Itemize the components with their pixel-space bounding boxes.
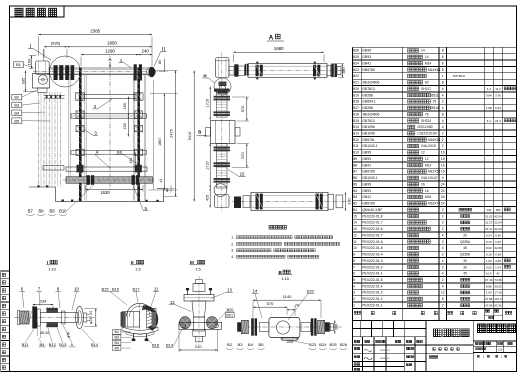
svg-text:B11: B11 [353,144,359,148]
svg-text:6: 6 [353,272,355,276]
svg-text:B4: B4 [40,342,46,347]
svg-text:GB41: GB41 [362,163,371,167]
svg-text:4: 4 [442,125,444,129]
svg-text:GB1096: GB1096 [362,125,375,129]
svg-text:2: 2 [442,227,444,231]
svg-text:1:10: 1:10 [48,266,56,271]
svg-text:234: 234 [40,299,47,304]
svg-text:210: 210 [195,344,202,349]
svg-text:16: 16 [441,163,445,167]
svg-text:53514: 53514 [430,106,439,110]
svg-text:42.04: 42.04 [494,214,502,218]
svg-text:44: 44 [159,179,163,183]
svg-text:2: 2 [442,303,444,307]
svg-text:B16: B16 [353,112,359,116]
svg-text:2: 2 [442,278,444,282]
svg-text:0.24: 0.24 [486,233,492,237]
svg-text:PEX222-01-2: PEX222-01-2 [362,265,382,269]
svg-text:B21: B21 [353,81,359,85]
svg-text:42: 42 [496,272,500,276]
right dark C bracket [142,305,158,330]
svg-text:B24: B24 [353,61,359,65]
svg-text:8: 8 [442,49,444,53]
svg-text:B4: B4 [353,189,357,193]
dim (535) [44,46,67,48]
svg-text:B22: B22 [307,289,315,294]
svg-text:B26: B26 [340,342,348,347]
dim 240 [139,54,153,56]
dim 254 [281,338,299,340]
top busbar tube [49,67,149,69]
svg-text:3.: 3. [231,249,234,253]
left suspension bracket [35,61,49,75]
svg-text:12: 12 [170,300,175,305]
gear clamp [47,308,59,313]
svg-text:GB93: GB93 [362,157,371,161]
svg-text:5: 5 [145,206,148,211]
svg-text:B3: B3 [353,195,357,199]
svg-text:0.38: 0.38 [495,253,501,257]
svg-text:30: 30 [463,259,467,263]
bolts [187,288,189,295]
svg-text:254: 254 [286,339,293,344]
boxed labels B2-B5 [113,330,121,335]
svg-text:PEX222-01-7: PEX222-01-7 [362,233,382,237]
svg-text:3.36: 3.36 [495,93,501,97]
svg-text:GB95: GB95 [362,182,371,186]
svg-text:1630: 1630 [100,190,110,195]
svg-text:21.02: 21.02 [485,214,493,218]
detail I title [14,260,99,347]
clamp at II [149,67,155,77]
svg-text:M14X65: M14X65 [428,68,440,72]
svg-text:B4: B4 [114,341,118,345]
svg-text:160: 160 [334,324,338,330]
dim 1850 [67,46,152,48]
svg-text:280: 280 [496,208,501,212]
svg-text:130: 130 [129,158,133,164]
svg-text:1.68: 1.68 [486,106,492,110]
svg-text:B: B [198,130,201,135]
svg-text:8: 8 [353,259,355,263]
lower tie bar [66,167,147,171]
dim 390 [341,64,343,78]
svg-text:4: 4 [353,284,355,288]
svg-text:GB894.1: GB894.1 [362,100,375,104]
svg-text:B2: B2 [227,342,233,347]
center box [269,318,300,338]
svg-text:GB95: GB95 [362,151,371,155]
svg-text:27.88: 27.88 [485,297,493,301]
svg-text:GB93: GB93 [362,55,371,59]
svg-text:B5: B5 [259,342,265,347]
svg-text:B9: B9 [49,209,55,214]
svg-text:24A-2X15: 24A-2X15 [421,144,436,148]
svg-text:24: 24 [441,189,445,193]
svg-text:2.: 2. [231,242,234,246]
svg-text:GB5780: GB5780 [362,170,375,174]
svg-text:2: 2 [442,100,444,104]
svg-text:5410: 5410 [188,132,192,140]
dim 1140 [253,299,321,301]
svg-text:B13: B13 [59,342,67,347]
detail II title [101,260,159,351]
bottom cylinder [251,192,328,210]
svg-text:B6: B6 [353,176,357,180]
svg-text:PEX222-01-6: PEX222-01-6 [362,240,382,244]
svg-text:PEX222-01-1: PEX222-01-1 [362,272,382,276]
svg-text:3: 3 [353,291,355,295]
bottom busbar tube item5 [66,177,153,183]
svg-text:QMU40-3,BF: QMU40-3,BF [362,208,382,212]
chain top yoke (tension clamp) [216,58,230,78]
svg-text:45.44: 45.44 [40,331,49,335]
chain bottom yoke [214,184,227,197]
svg-text:M16X70: M16X70 [428,202,440,206]
svg-text:9: 9 [353,253,355,257]
base plate [179,322,222,329]
svg-text:1680: 1680 [274,46,284,51]
svg-text:240: 240 [142,48,150,53]
svg-text:4: 4 [442,176,444,180]
svg-text:PEX222-01.6: PEX222-01.6 [362,227,382,231]
center axis [109,56,111,191]
svg-text:22.54: 22.54 [494,221,502,225]
svg-text:14: 14 [353,221,357,225]
svg-text:8: 8 [442,81,444,85]
svg-text:I: I [47,260,48,265]
svg-text:2: 2 [442,214,444,218]
svg-text:II: II [162,47,165,53]
lower insulator stack [217,144,228,189]
svg-text:PEX222-01.1: PEX222-01.1 [362,303,382,307]
detail circle III around ring [214,78,231,95]
detail III title [166,260,265,352]
A view [188,34,352,212]
mid tube bar [71,114,147,118]
svg-text:B2: B2 [114,330,118,334]
bundle yoke plate [44,94,65,96]
svg-text:B15: B15 [353,119,359,123]
svg-text:4.3: 4.3 [487,87,491,91]
svg-text:1290: 1290 [105,48,115,53]
svg-text:8.88: 8.88 [486,284,492,288]
dim 80 right [163,59,165,72]
svg-text:M12: M12 [425,163,432,167]
svg-text:φ76: φ76 [67,332,71,338]
svg-text:GB93: GB93 [362,189,371,193]
dim 210 [179,349,218,351]
crossbar 2 [83,94,136,98]
svg-text:7: 7 [353,265,355,269]
svg-text:B2: B2 [353,202,357,206]
svg-text:B16: B16 [112,287,120,292]
svg-text:5: 5 [353,278,355,282]
svg-text:1.04: 1.04 [495,265,501,269]
svg-text:570: 570 [267,301,274,306]
svg-text:1:5: 1:5 [195,266,200,271]
svg-text:1:5: 1:5 [135,266,140,271]
svg-text:GB7813: GB7813 [362,87,375,91]
BOM rows text [353,49,517,308]
detail circle II [147,67,156,76]
right rail post [137,68,140,202]
svg-text:B18: B18 [353,100,359,104]
svg-text:24.4: 24.4 [495,119,501,123]
svg-text:24A-1X147: 24A-1X147 [421,176,438,180]
svg-text:B5: B5 [14,118,19,123]
svg-text:15: 15 [240,172,245,177]
svg-text:230: 230 [348,198,352,204]
boxed label B1 [14,62,24,68]
svg-text:8: 8 [442,68,444,72]
svg-text:4: 4 [442,272,444,276]
svg-text:B15: B15 [101,287,109,292]
svg-text:PEX222-01.3: PEX222-01.3 [362,291,382,295]
svg-text:B11: B11 [22,342,30,347]
svg-text:III: III [203,74,206,78]
svg-text:0.19: 0.19 [486,253,492,257]
dim phi237.34 [95,309,97,327]
svg-text:B8: B8 [38,209,44,214]
svg-text:4: 4 [442,93,444,97]
svg-text:12: 12 [425,157,429,161]
svg-text:11.27: 11.27 [485,221,492,225]
svg-text:8: 8 [442,61,444,65]
svg-text:B7: B7 [28,209,34,214]
dim 1290 [81,54,139,56]
svg-text:B19: B19 [353,93,359,97]
svg-text:12: 12 [421,151,425,155]
svg-text:B17: B17 [132,287,140,292]
bolts below [133,334,135,341]
svg-text:14: 14 [421,49,425,53]
svg-text:B14: B14 [91,342,99,347]
hanger lines [38,92,40,186]
top cylinder [248,64,327,78]
left shaft [260,322,269,331]
svg-text:GB5780: GB5780 [362,68,375,72]
svg-text:B4: B4 [248,342,254,347]
svg-text:B12: B12 [49,342,57,347]
svg-text:II: II [131,260,134,265]
svg-text:2: 2 [442,208,444,212]
dim 1715 [209,144,211,189]
svg-text:Q235A: Q235A [460,253,471,257]
svg-text:20: 20 [463,233,467,237]
upper insulator stack [214,89,230,92]
svg-text:4: 4 [442,284,444,288]
middle box [211,121,236,144]
svg-text:B17: B17 [353,106,359,110]
svg-text:425: 425 [205,195,209,201]
svg-text:4.08: 4.08 [495,259,501,263]
svg-text:24: 24 [441,202,445,206]
svg-text:16: 16 [425,189,429,193]
drawing number cell 图样图号 [478,324,516,333]
svg-text:75: 75 [433,100,437,104]
svg-text:B4: B4 [14,110,20,115]
svg-text:PEX222-01.5: PEX222-01.5 [362,278,382,282]
dim 1680 [233,51,324,53]
svg-text:B23: B23 [309,342,317,347]
svg-text:13: 13 [353,227,357,231]
svg-text:2: 2 [442,253,444,257]
svg-text:PEX222-01-4: PEX222-01-4 [362,253,382,257]
svg-text:8: 8 [442,55,444,59]
svg-text:4: 4 [442,119,444,123]
svg-text:Q235A: Q235A [460,240,471,244]
dim 425 [209,188,211,208]
svg-text:13: 13 [227,288,232,293]
svg-text:6.64: 6.64 [495,106,501,110]
svg-text:C18X11X100: C18X11X100 [417,131,437,135]
svg-text:B14: B14 [353,125,359,129]
svg-text:B20: B20 [353,87,359,91]
svg-text:0.20: 0.20 [495,240,501,244]
header row: biaoji chushu etc [354,340,360,342]
svg-text:PEX222-01-5: PEX222-01-5 [362,246,382,250]
svg-text:16.17: 16.17 [485,227,493,231]
svg-text:47.68: 47.68 [485,303,493,307]
svg-text:B25: B25 [353,55,359,59]
svg-text:B10: B10 [353,151,359,155]
svg-text:B21: B21 [226,314,233,318]
dim 160 [31,56,33,69]
svg-text:0.84: 0.84 [486,93,492,97]
svg-text:1:15: 1:15 [498,350,503,352]
svg-text:GB7813: GB7813 [362,119,375,123]
svg-text:2: 2 [442,221,444,225]
stepped foundation [29,186,56,188]
svg-text:35.52: 35.52 [494,284,502,288]
technical notes [231,225,340,259]
svg-text:B1: B1 [353,208,357,212]
dim 234 [33,304,53,306]
gongyi row [354,363,360,365]
svg-text:3: 3 [94,131,97,136]
svg-text:B3: B3 [114,336,118,340]
svg-text:53511: 53511 [430,93,439,97]
svg-text:37.19: 37.19 [485,278,493,282]
dim 1710 [209,87,211,120]
svg-text:φ237.34: φ237.34 [89,311,93,324]
dims 570 570 [246,97,248,121]
svg-text:6.1: 6.1 [487,119,491,123]
svg-text:M16: M16 [425,195,432,199]
dim 230 [345,192,347,210]
svg-text:0.52: 0.52 [486,265,492,269]
svg-text:M16X30: M16X30 [428,138,440,142]
svg-text:1867: 1867 [158,138,162,146]
svg-text:24: 24 [441,195,445,199]
svg-text:2: 2 [442,131,444,135]
svg-text:GB41: GB41 [362,195,371,199]
svg-text:1:15: 1:15 [281,276,289,281]
svg-text:III: III [190,260,194,265]
svg-text:GB41: GB41 [362,61,371,65]
svg-text:167.3: 167.3 [494,297,502,301]
svg-text:14: 14 [253,289,258,294]
left rail post [79,68,82,202]
svg-text:2: 2 [442,240,444,244]
rail clamps row 4 [76,149,84,155]
svg-text:B19: B19 [166,343,174,348]
svg-text:570: 570 [241,106,245,112]
svg-text:B22: B22 [353,74,359,78]
svg-text:44: 44 [166,188,170,192]
svg-text:1: 1 [353,303,355,307]
svg-text:160: 160 [26,58,31,65]
svg-text:(535): (535) [51,41,61,46]
svg-text:74: 74 [295,303,299,307]
lower post [193,329,206,336]
right shaft [301,322,310,331]
svg-text:10: 10 [74,287,79,292]
svg-text:GB1096: GB1096 [362,131,375,135]
svg-text:4.: 4. [231,255,234,259]
saddle plates [122,327,158,334]
svg-text:335: 335 [20,77,25,84]
svg-text:GB288: GB288 [362,106,373,110]
svg-text:B23: B23 [353,68,359,72]
svg-text:12: 12 [353,233,357,237]
svg-text:B26: B26 [353,49,359,53]
svg-text:B7: B7 [353,170,357,174]
clamp dome [127,303,153,316]
svg-text:B20: B20 [227,308,234,312]
svg-text:GB5780: GB5780 [362,202,375,206]
svg-text:M12X50: M12X50 [428,170,440,174]
svg-text:16: 16 [441,157,445,161]
svg-text:4: 4 [442,259,444,263]
svg-text:32.34: 32.34 [494,227,502,231]
BOM parts list table [353,47,517,320]
svg-text:SH217: SH217 [421,87,431,91]
dim 160 [334,320,336,333]
title block [353,320,517,371]
svg-text:B12: B12 [353,138,359,142]
svg-text:1710: 1710 [205,99,209,107]
tapered body [192,301,206,317]
svg-text:A: A [269,35,274,42]
svg-text:14: 14 [425,55,429,59]
svg-text:6: 6 [442,297,444,301]
svg-text:80: 80 [158,60,162,64]
svg-text:4: 4 [442,87,444,91]
svg-text:15: 15 [353,214,357,218]
rail clamps row 3 [76,126,84,132]
svg-text:B6: B6 [117,150,123,155]
svg-text:2385: 2385 [90,28,100,33]
svg-text:GB1243.1: GB1243.1 [362,144,377,148]
svg-text:2021.1.10: 2021.1.10 [380,350,391,352]
svg-text:1850: 1850 [107,41,117,46]
svg-text:75: 75 [425,112,429,116]
svg-text:390: 390 [342,67,346,73]
svg-text:24: 24 [441,182,445,186]
right dims 1867 2475 [163,94,165,191]
svg-text:2: 2 [94,104,97,109]
svg-text:11.2: 11.2 [495,87,501,91]
svg-text:10: 10 [353,246,357,250]
svg-text:2: 2 [442,265,444,269]
dim 1630 [86,188,144,190]
svg-text:8.02: 8.02 [486,246,492,250]
svg-text:570: 570 [241,152,245,158]
svg-text:11: 11 [154,287,159,292]
dim 130 [134,152,136,168]
